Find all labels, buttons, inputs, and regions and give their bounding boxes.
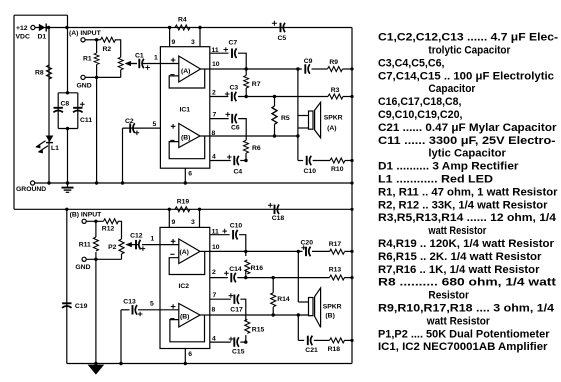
svg-text:(A): (A) — [327, 125, 336, 132]
svg-text:+12: +12 — [16, 25, 28, 32]
svg-text:11: 11 — [212, 229, 219, 236]
svg-text:Capacitor: Capacitor — [428, 83, 475, 95]
svg-text:watt Resistor: watt Resistor — [426, 315, 490, 327]
svg-text:C14: C14 — [229, 266, 242, 273]
svg-text:C4: C4 — [234, 169, 243, 176]
svg-text:P1,P2 .... 50K Dual Potentiom: P1,P2 .... 50K Dual Potentiometer — [378, 328, 550, 340]
svg-text:(B): (B) — [325, 312, 334, 319]
svg-text:C9,C10,C19,C20,: C9,C10,C19,C20, — [378, 109, 463, 121]
svg-text:C17: C17 — [230, 307, 243, 314]
svg-text:R18: R18 — [328, 346, 341, 353]
svg-text:R16: R16 — [251, 265, 264, 272]
svg-text:C19: C19 — [75, 303, 88, 310]
svg-text:R3: R3 — [331, 87, 340, 94]
svg-text:R7: R7 — [252, 81, 261, 88]
svg-text:2: 2 — [212, 269, 216, 276]
svg-text:9: 9 — [172, 39, 176, 46]
svg-text:P2: P2 — [108, 244, 117, 251]
svg-text:D1: D1 — [38, 34, 47, 41]
svg-text:SPKR: SPKR — [324, 114, 343, 121]
svg-text:11: 11 — [212, 47, 219, 54]
svg-text:IC1, IC2 NEC70001AB Amplifie: IC1, IC2 NEC70001AB Amplifier — [378, 341, 548, 353]
svg-text:trolytic Capacitor: trolytic Capacitor — [428, 45, 510, 57]
svg-text:R14: R14 — [277, 296, 290, 303]
svg-text:(A): (A) — [180, 249, 189, 256]
svg-text:R7,R16 .. 1K, 1/4 watt Resist: R7,R16 .. 1K, 1/4 watt Resistor — [378, 264, 540, 276]
svg-text:L1: L1 — [51, 145, 59, 152]
svg-text:D1 .......... 3 Amp Rectifie: D1 .......... 3 Amp Rectifier — [378, 161, 519, 173]
svg-text:(B): (B) — [180, 314, 189, 321]
svg-text:C18: C18 — [272, 215, 285, 222]
svg-text:1: 1 — [154, 55, 158, 62]
svg-text:VDC: VDC — [16, 34, 30, 41]
svg-text:R1: R1 — [83, 56, 92, 63]
svg-text:C16,C17,C18,C8,: C16,C17,C18,C8, — [378, 96, 462, 108]
svg-text:9: 9 — [172, 219, 176, 226]
svg-text:3: 3 — [191, 39, 195, 46]
svg-text:R6: R6 — [252, 145, 261, 152]
svg-text:8: 8 — [212, 306, 216, 313]
svg-text:C6: C6 — [231, 125, 240, 132]
svg-text:C12: C12 — [130, 233, 143, 240]
svg-text:8: 8 — [212, 130, 216, 137]
svg-text:R6,R15 .. 2K. 1/4 watt Resist: R6,R15 .. 2K. 1/4 watt Resistor — [378, 251, 542, 263]
svg-text:R9,R10,R17,R18 .... 3 ohm,: R9,R10,R17,R18 .... 3 ohm, 1/4 — [378, 303, 554, 315]
svg-text:(B) INPUT: (B) INPUT — [70, 212, 103, 219]
svg-text:(A) INPUT: (A) INPUT — [69, 30, 102, 37]
svg-text:watt Resistor: watt Resistor — [428, 225, 487, 237]
svg-text:C1: C1 — [135, 53, 144, 60]
svg-text:(B): (B) — [181, 135, 190, 142]
svg-text:C8: C8 — [61, 101, 70, 108]
svg-text:C3,C4,C5,C6,: C3,C4,C5,C6, — [378, 57, 445, 69]
svg-text:4: 4 — [212, 154, 216, 161]
svg-text:C11 ...... 3300 μF, 25V E: C11 ...... 3300 μF, 25V Electro- — [378, 135, 556, 147]
svg-text:IC2: IC2 — [179, 283, 190, 290]
svg-text:R4,R19 .. 120K, 1/4 watt Resi: R4,R19 .. 120K, 1/4 watt Resistor — [378, 238, 554, 250]
svg-text:5: 5 — [153, 121, 157, 128]
svg-text:R15: R15 — [252, 326, 265, 333]
svg-text:1: 1 — [151, 236, 155, 243]
svg-text:Resistor: Resistor — [428, 290, 469, 302]
svg-text:C2: C2 — [125, 118, 134, 125]
svg-text:lytic Capacitor: lytic Capacitor — [428, 148, 506, 160]
svg-text:R9: R9 — [329, 59, 338, 66]
svg-text:SPKR: SPKR — [323, 303, 342, 310]
svg-text:R2: R2 — [103, 46, 112, 53]
svg-text:C15: C15 — [232, 349, 245, 356]
svg-text:R12: R12 — [102, 226, 115, 233]
svg-text:4: 4 — [212, 335, 216, 342]
svg-text:5: 5 — [150, 301, 154, 308]
svg-text:R19: R19 — [177, 198, 190, 205]
svg-text:R5: R5 — [281, 115, 290, 122]
svg-text:C11: C11 — [80, 117, 92, 124]
svg-text:R1, R11 .. 47 ohm, 1 watt Res: R1, R11 .. 47 ohm, 1 watt Resistor — [378, 186, 558, 198]
svg-text:6: 6 — [188, 351, 192, 358]
svg-text:(A): (A) — [181, 68, 190, 75]
svg-text:R8 .......... 680 ohm, 1/4: R8 .......... 680 ohm, 1/4 watt — [378, 277, 557, 289]
svg-text:R4: R4 — [178, 17, 187, 24]
svg-text:C7: C7 — [229, 40, 238, 47]
svg-text:C10: C10 — [230, 223, 243, 230]
svg-text:R11: R11 — [79, 241, 91, 248]
svg-text:7: 7 — [213, 292, 217, 299]
svg-text:C9: C9 — [304, 58, 313, 65]
svg-text:R17: R17 — [329, 241, 342, 248]
svg-text:R2, R12 .. 33K, 1/4 watt Resi: R2, R12 .. 33K, 1/4 watt Resistor — [378, 199, 548, 211]
svg-text:R8: R8 — [35, 70, 44, 77]
svg-text:10: 10 — [212, 61, 220, 68]
svg-text:C10: C10 — [304, 168, 317, 175]
svg-text:R3,R5,R13,R14 ...... 12 ohm,: R3,R5,R13,R14 ...... 12 ohm, 1/4 — [378, 212, 556, 224]
svg-text:10: 10 — [212, 244, 220, 251]
svg-text:3: 3 — [191, 219, 195, 226]
svg-text:IC1: IC1 — [180, 107, 191, 114]
svg-text:7: 7 — [213, 112, 217, 119]
svg-text:GROUND: GROUND — [16, 186, 46, 193]
svg-text:6: 6 — [188, 171, 192, 178]
svg-text:L1 ............ Red LED: L1 ............ Red LED — [378, 174, 493, 186]
svg-text:C21 ...... 0.47 μF Mylar Capa: C21 ...... 0.47 μF Mylar Capacitor — [378, 122, 557, 134]
svg-text:2: 2 — [212, 90, 216, 97]
svg-text:GND: GND — [75, 264, 90, 271]
svg-text:C7,C14,C15 .. 100 μF Electrol: C7,C14,C15 .. 100 μF Electrolytic — [378, 70, 554, 82]
svg-text:C21: C21 — [305, 347, 318, 354]
svg-text:C20: C20 — [301, 240, 314, 247]
svg-text:GND: GND — [77, 83, 92, 90]
svg-text:R10: R10 — [331, 166, 344, 173]
svg-text:C13: C13 — [123, 299, 136, 306]
svg-text:C1,C2,C12,C13 ...... 4.7 μF E: C1,C2,C12,C13 ...... 4.7 μF Elec- — [378, 32, 559, 44]
svg-text:C3: C3 — [230, 85, 239, 92]
svg-text:R13: R13 — [329, 267, 342, 274]
svg-text:C5: C5 — [278, 35, 287, 42]
